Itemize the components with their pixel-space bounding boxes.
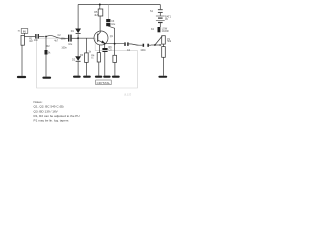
svg-text:100n: 100n xyxy=(61,38,67,40)
svg-text:10n: 10n xyxy=(34,39,39,42)
svg-text:1M: 1M xyxy=(29,40,32,43)
svg-text:Q1, Q2: BC 549 C (B): Q1, Q2: BC 549 C (B) xyxy=(34,105,64,109)
svg-text:R1, R2 can be adjusted to the: R1, R2 can be adjusted to the PU xyxy=(34,114,80,118)
svg-text:9V: 9V xyxy=(165,18,168,21)
svg-text:4k7: 4k7 xyxy=(94,14,99,17)
svg-text:a.s.b: a.s.b xyxy=(124,93,131,97)
svg-text:100n: 100n xyxy=(140,49,146,52)
svg-text:IN: IN xyxy=(23,30,26,34)
svg-text:10u: 10u xyxy=(68,43,73,46)
svg-text:Q3: BD 139 / 16V: Q3: BD 139 / 16V xyxy=(34,109,59,113)
svg-text:CURR: CURR xyxy=(162,30,169,33)
svg-text:100n: 100n xyxy=(61,46,67,49)
svg-text:CRYSTAL: CRYSTAL xyxy=(97,81,111,85)
svg-text:10u: 10u xyxy=(111,23,116,26)
svg-text:P1 may be lin. log. tapers: P1 may be lin. log. tapers xyxy=(34,119,69,123)
svg-text:Notes:: Notes: xyxy=(34,100,43,104)
